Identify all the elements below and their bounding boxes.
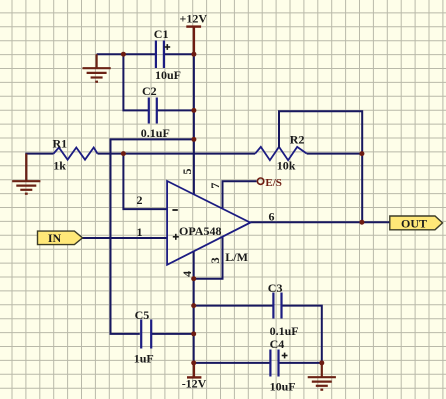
wire: left ground to R1	[26, 154, 53, 182]
svg-text:6: 6	[269, 210, 275, 224]
wire: output pin 6 to OUT	[250, 221, 389, 223]
wire: C3 right to ground vertical	[282, 306, 322, 363]
svg-text:L/M: L/M	[225, 250, 248, 264]
ground near R1	[12, 154, 40, 194]
svg-text:C5: C5	[135, 308, 150, 322]
junction at C3/negative rail	[191, 303, 196, 308]
plus mark C1	[164, 44, 170, 50]
svg-text:1: 1	[137, 225, 143, 239]
svg-text:OUT: OUT	[401, 217, 427, 231]
wire: inverting input from R1 node to pin 2	[123, 154, 167, 210]
svg-text:R1: R1	[53, 137, 68, 151]
wire: C4 right to ground	[279, 362, 322, 364]
wire: C2 right plate to +12V rail	[157, 109, 194, 111]
junction at C1/ground node	[121, 52, 126, 57]
plus input mark	[173, 234, 179, 240]
wire: C1 right plate to +12V junction	[164, 53, 194, 55]
svg-text:+12V: +12V	[180, 11, 208, 25]
ground near C4	[308, 363, 336, 390]
svg-text:C1: C1	[154, 27, 169, 41]
svg-text:7: 7	[208, 183, 222, 189]
svg-text:1uF: 1uF	[134, 351, 154, 365]
junction at C1/+12V rail	[191, 52, 196, 57]
svg-text:-12V: -12V	[182, 377, 207, 391]
junction at pin 4/pin 3 tie	[191, 276, 196, 281]
wire: junction A down to C2 row	[123, 54, 148, 110]
svg-text:R2: R2	[290, 133, 305, 147]
power +12V	[186, 27, 201, 55]
svg-text:5: 5	[180, 169, 194, 175]
wire: C3 row	[194, 305, 274, 307]
svg-text:10uF: 10uF	[270, 379, 296, 393]
resistor R1	[54, 148, 98, 160]
power -12V	[187, 363, 201, 378]
wire: +12V rail down to op-amp pin 5	[193, 54, 195, 194]
resistor R2	[255, 147, 307, 160]
svg-text:C3: C3	[268, 281, 283, 295]
port OUT	[390, 216, 443, 231]
svg-text:4: 4	[180, 271, 194, 277]
wire: pin 3 down and left to pin 4 node	[194, 237, 223, 279]
node E/S circle	[257, 178, 263, 184]
capacitor C5	[141, 320, 151, 349]
capacitor C3	[273, 293, 281, 319]
wire: C5 right plate to rail	[151, 333, 194, 335]
junction at C5 top rail/+12V rail	[191, 137, 196, 142]
svg-text:OPA548: OPA548	[179, 224, 221, 238]
junction at R2 right/output branch	[359, 151, 364, 156]
svg-text:0.1uF: 0.1uF	[141, 126, 170, 140]
svg-text:C4: C4	[270, 337, 285, 351]
wire: pin 7 to E/S	[223, 181, 257, 209]
svg-text:3: 3	[208, 257, 222, 263]
op-amp U1 triangle	[167, 181, 250, 265]
junction at C4 right/ground node	[319, 360, 324, 365]
svg-text:10k: 10k	[277, 159, 296, 173]
junction at C5/negative rail	[191, 331, 196, 336]
svg-text:IN: IN	[48, 231, 62, 245]
junction at C4/-12V node	[191, 360, 196, 365]
junction at output wire/feedback branch	[359, 220, 364, 225]
svg-text:E/S: E/S	[265, 177, 282, 189]
svg-text:C2: C2	[142, 84, 157, 98]
wire: C5 top rail	[111, 139, 194, 334]
ground near C1	[83, 54, 111, 81]
minus input mark	[172, 209, 177, 211]
junction at C2/+12V rail	[191, 108, 196, 113]
capacitor C4	[270, 350, 278, 377]
svg-text:1k: 1k	[53, 159, 66, 173]
wire: R2 right to output vertical	[307, 153, 362, 155]
svg-text:0.1uF: 0.1uF	[270, 324, 299, 338]
wire: IN to pin 1	[83, 237, 168, 239]
junction at R1/inverting input node	[121, 151, 126, 156]
svg-text:10uF: 10uF	[155, 68, 181, 82]
svg-text:2: 2	[137, 193, 143, 207]
port IN	[38, 231, 83, 245]
wire: pin 4 down, negative rail	[193, 251, 195, 363]
wire: R1 to R2 node row	[98, 153, 256, 155]
wire: ground to C1 left plate	[97, 53, 156, 55]
capacitor C2	[149, 98, 157, 124]
capacitor C1	[156, 41, 164, 69]
wire: feedback loop top	[279, 111, 362, 222]
plus mark C4	[282, 353, 288, 359]
wire: C4 row	[194, 362, 271, 364]
